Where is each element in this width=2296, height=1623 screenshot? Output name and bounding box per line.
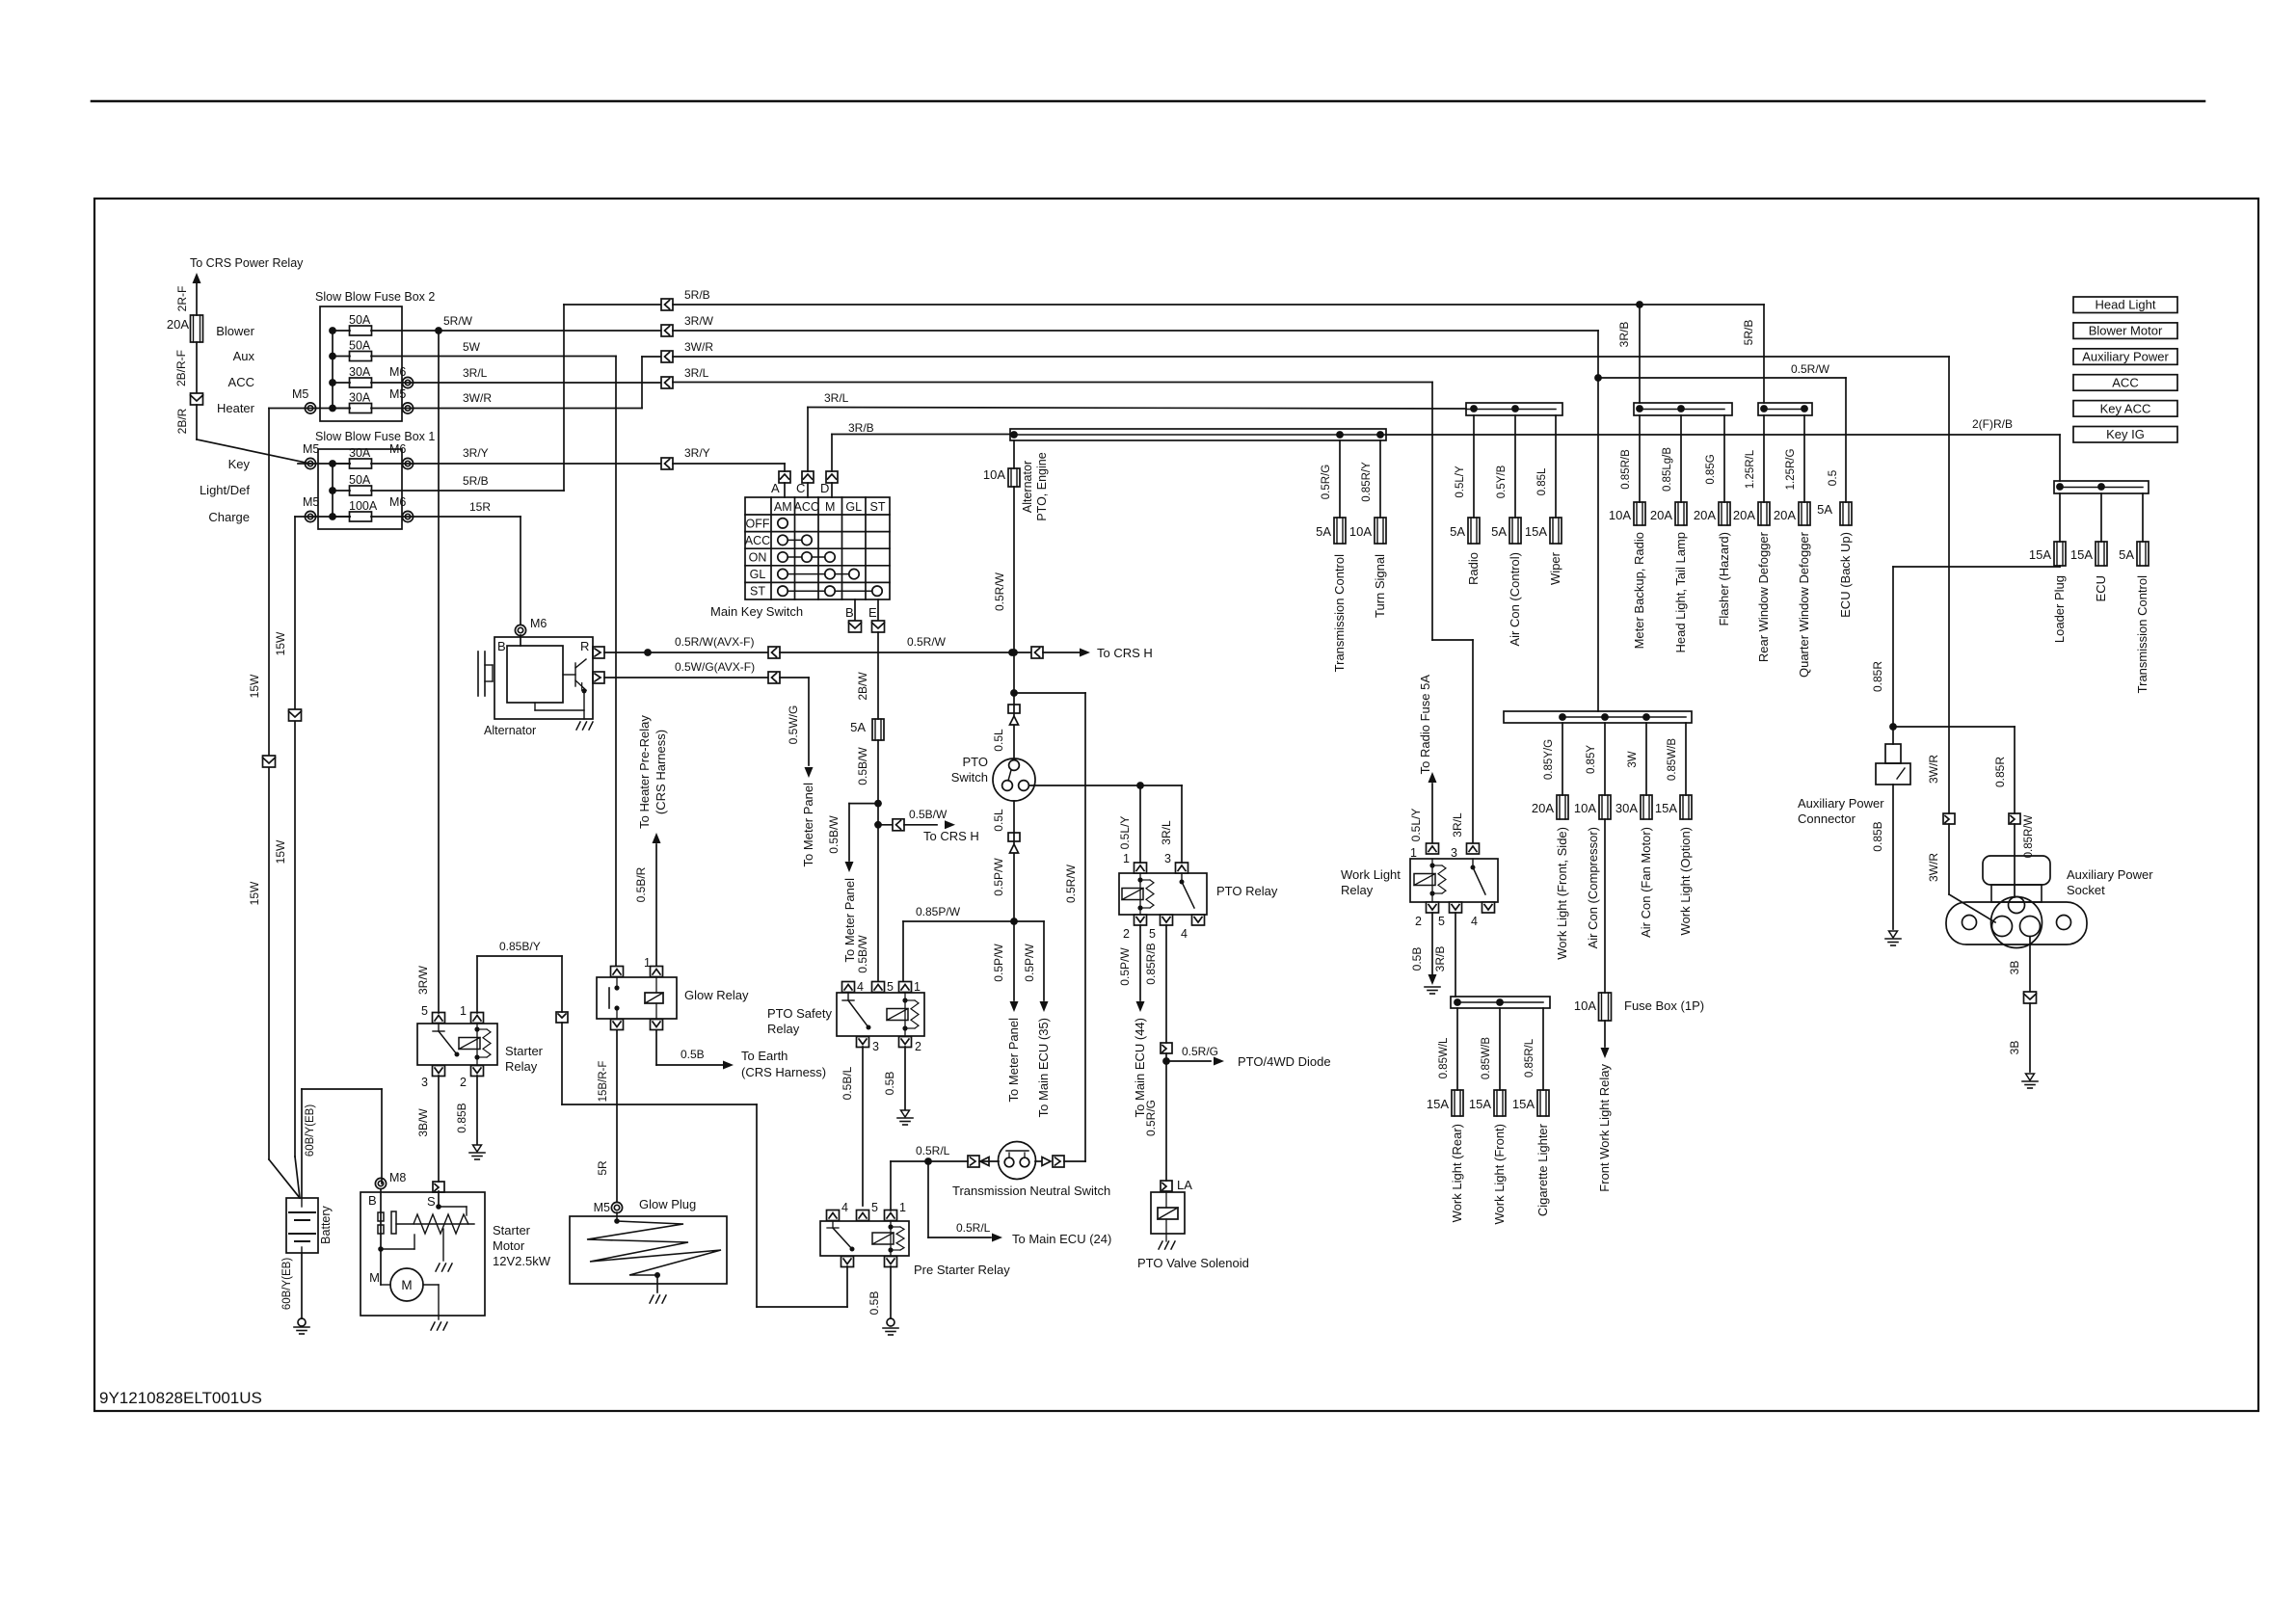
svg-text:A: A [771, 481, 780, 495]
svg-text:Connector: Connector [1798, 811, 1856, 826]
svg-text:0.85P/W: 0.85P/W [916, 905, 961, 918]
svg-text:Auxiliary Power: Auxiliary Power [2067, 867, 2153, 882]
svg-text:ST: ST [750, 585, 765, 599]
svg-text:To Meter Panel: To Meter Panel [842, 878, 857, 963]
svg-text:20A: 20A [1733, 508, 1755, 522]
svg-text:5R/B: 5R/B [684, 288, 710, 302]
svg-text:B: B [845, 605, 854, 620]
svg-text:3R/L: 3R/L [1160, 820, 1173, 845]
svg-text:0.85R/Y: 0.85R/Y [1361, 462, 1373, 502]
svg-text:Cigarette Lighter: Cigarette Lighter [1535, 1123, 1550, 1216]
svg-text:0.85B/Y: 0.85B/Y [499, 940, 541, 953]
svg-text:5A: 5A [2119, 547, 2134, 562]
svg-text:B: B [497, 639, 506, 653]
svg-text:3R/B: 3R/B [1617, 322, 1631, 348]
svg-text:30A: 30A [1615, 801, 1638, 815]
svg-text:3: 3 [872, 1040, 879, 1053]
svg-text:Air Con (Fan Motor): Air Con (Fan Motor) [1639, 827, 1653, 938]
svg-text:3R/L: 3R/L [1451, 812, 1464, 838]
svg-text:Heater: Heater [217, 401, 255, 415]
svg-text:0.85W/L: 0.85W/L [1438, 1037, 1450, 1078]
svg-text:M: M [369, 1270, 380, 1285]
svg-text:5A: 5A [1450, 524, 1465, 539]
svg-text:50A: 50A [349, 313, 371, 327]
svg-text:0.5P/W: 0.5P/W [992, 858, 1005, 896]
svg-text:10A: 10A [1574, 998, 1596, 1013]
svg-text:0.5B: 0.5B [681, 1048, 705, 1061]
svg-text:0.5L/Y: 0.5L/Y [1409, 809, 1423, 842]
svg-text:4: 4 [1471, 915, 1478, 928]
svg-text:5: 5 [421, 1004, 428, 1018]
svg-text:Transmission Control: Transmission Control [2135, 575, 2149, 693]
svg-text:Work Light (Front): Work Light (Front) [1492, 1124, 1507, 1225]
svg-text:4: 4 [1181, 927, 1188, 941]
svg-text:Key: Key [228, 457, 251, 471]
svg-text:Relay: Relay [1341, 883, 1374, 897]
svg-text:S: S [427, 1194, 436, 1209]
svg-text:5A: 5A [1491, 524, 1507, 539]
svg-text:0.5L: 0.5L [992, 809, 1005, 832]
svg-text:M6: M6 [389, 495, 406, 509]
svg-text:ECU (Back Up): ECU (Back Up) [1838, 532, 1853, 618]
svg-text:Fuse Box (1P): Fuse Box (1P) [1624, 998, 1704, 1013]
svg-text:15A: 15A [1655, 801, 1677, 815]
svg-text:M5: M5 [303, 442, 319, 456]
svg-text:Key ACC: Key ACC [2100, 401, 2151, 415]
svg-text:5R: 5R [596, 1160, 609, 1176]
svg-text:5R/B: 5R/B [1742, 320, 1755, 346]
svg-text:3R/W: 3R/W [416, 965, 430, 995]
svg-text:0.85B: 0.85B [455, 1103, 468, 1132]
svg-text:2: 2 [915, 1040, 921, 1053]
svg-text:20A: 20A [1650, 508, 1672, 522]
svg-text:0.85G: 0.85G [1705, 454, 1717, 484]
svg-text:0.5W/G(AVX-F): 0.5W/G(AVX-F) [675, 660, 755, 674]
svg-text:Work Light (Option): Work Light (Option) [1678, 827, 1693, 935]
svg-text:5R/W: 5R/W [443, 314, 473, 328]
svg-text:0.5L/Y: 0.5L/Y [1455, 466, 1466, 498]
svg-text:0.5B/W: 0.5B/W [856, 747, 869, 785]
svg-text:0.85R/W: 0.85R/W [2023, 814, 2035, 858]
svg-text:0.5L: 0.5L [992, 729, 1005, 752]
svg-text:5: 5 [887, 980, 894, 994]
svg-text:Glow Plug: Glow Plug [639, 1197, 696, 1211]
svg-text:ECU: ECU [2094, 575, 2108, 601]
svg-text:1: 1 [460, 1004, 467, 1018]
svg-text:30A: 30A [349, 446, 371, 460]
svg-text:To Meter Panel: To Meter Panel [1006, 1018, 1021, 1103]
svg-text:10A: 10A [1574, 801, 1596, 815]
svg-text:0.5R/L: 0.5R/L [956, 1221, 991, 1235]
svg-text:3W: 3W [1627, 751, 1639, 767]
svg-text:1: 1 [899, 1201, 906, 1214]
svg-text:Work Light (Front, Side): Work Light (Front, Side) [1555, 827, 1569, 960]
svg-text:10A: 10A [1609, 508, 1631, 522]
svg-text:Quarter Window Defogger: Quarter Window Defogger [1797, 531, 1811, 678]
svg-text:To Radio Fuse 5A: To Radio Fuse 5A [1418, 675, 1432, 775]
svg-text:3: 3 [1451, 846, 1457, 860]
svg-text:PTO, Engine: PTO, Engine [1035, 452, 1049, 520]
svg-text:5: 5 [1438, 915, 1445, 928]
svg-text:M6: M6 [530, 617, 547, 630]
svg-text:0.85R/B: 0.85R/B [1620, 449, 1632, 490]
svg-text:Turn Signal: Turn Signal [1373, 554, 1387, 618]
svg-text:Main Key Switch: Main Key Switch [710, 604, 803, 619]
svg-text:0.5R/G: 0.5R/G [1321, 465, 1332, 499]
svg-text:ON: ON [749, 551, 767, 565]
svg-text:20A: 20A [167, 317, 189, 332]
svg-text:1.25R/L: 1.25R/L [1745, 449, 1756, 489]
svg-text:M: M [825, 500, 835, 514]
svg-text:15R: 15R [469, 500, 491, 514]
svg-text:20A: 20A [1774, 508, 1796, 522]
svg-text:0.5P/W: 0.5P/W [1118, 947, 1132, 986]
svg-text:0.85Lg/B: 0.85Lg/B [1662, 447, 1673, 492]
svg-text:R: R [580, 639, 589, 653]
svg-text:3W/R: 3W/R [463, 391, 492, 405]
svg-text:0.85R/L: 0.85R/L [1524, 1038, 1535, 1078]
svg-text:15B/R-F: 15B/R-F [598, 1061, 609, 1103]
svg-text:Front Work Light Relay: Front Work Light Relay [1597, 1064, 1612, 1192]
svg-text:15A: 15A [2070, 547, 2093, 562]
svg-text:0.5B/W: 0.5B/W [827, 815, 841, 854]
svg-text:To Main ECU (35): To Main ECU (35) [1036, 1018, 1051, 1117]
svg-text:ACC: ACC [228, 375, 254, 389]
svg-text:3R/L: 3R/L [463, 366, 488, 380]
svg-text:Wiper: Wiper [1548, 551, 1562, 585]
svg-text:5R/B: 5R/B [463, 474, 489, 488]
svg-text:Relay: Relay [505, 1059, 538, 1074]
svg-text:0.5R/W: 0.5R/W [1791, 362, 1830, 376]
svg-text:1: 1 [914, 980, 921, 994]
svg-text:4: 4 [841, 1201, 848, 1214]
svg-text:Meter Backup, Radio: Meter Backup, Radio [1632, 532, 1646, 649]
svg-text:M6: M6 [389, 365, 406, 379]
svg-text:0.5R/W: 0.5R/W [1064, 864, 1078, 903]
svg-text:Key IG: Key IG [2106, 427, 2145, 441]
svg-text:M8: M8 [389, 1171, 406, 1184]
svg-text:B: B [368, 1193, 377, 1208]
svg-text:3: 3 [421, 1076, 428, 1089]
svg-text:0.5R/L: 0.5R/L [916, 1144, 950, 1157]
svg-text:0.85L: 0.85L [1536, 467, 1548, 495]
svg-text:15A: 15A [1512, 1097, 1535, 1111]
svg-text:ACC: ACC [2112, 375, 2138, 389]
svg-text:0.85R/B: 0.85R/B [1144, 943, 1158, 984]
svg-text:M6: M6 [389, 442, 406, 456]
svg-text:15A: 15A [1427, 1097, 1449, 1111]
svg-text:0.85B: 0.85B [1871, 821, 1884, 851]
svg-text:0.5P/W: 0.5P/W [1023, 944, 1036, 982]
svg-text:Flasher (Hazard): Flasher (Hazard) [1717, 532, 1731, 626]
svg-text:E: E [868, 605, 877, 620]
svg-text:3B/W: 3B/W [416, 1108, 430, 1137]
svg-text:C: C [796, 481, 805, 495]
svg-text:Blower: Blower [216, 324, 254, 338]
svg-text:0.5P/W: 0.5P/W [992, 944, 1005, 982]
svg-text:0.5L/Y: 0.5L/Y [1118, 816, 1132, 850]
svg-text:3R/Y: 3R/Y [684, 446, 710, 460]
svg-text:ACC: ACC [794, 500, 819, 514]
svg-text:15W: 15W [274, 631, 287, 655]
svg-text:15W: 15W [274, 839, 287, 864]
svg-text:0.85Y/G: 0.85Y/G [1543, 739, 1555, 780]
svg-text:Auxiliary Power: Auxiliary Power [1798, 796, 1884, 811]
svg-text:AM: AM [774, 500, 792, 514]
svg-text:3W/R: 3W/R [1927, 853, 1940, 882]
svg-text:Head Light, Tail Lamp: Head Light, Tail Lamp [1673, 532, 1688, 653]
svg-text:15A: 15A [1469, 1097, 1491, 1111]
svg-text:Starter: Starter [505, 1044, 544, 1058]
svg-text:0.5B/W: 0.5B/W [856, 935, 869, 973]
svg-text:0.5B: 0.5B [883, 1072, 896, 1096]
svg-text:Slow Blow Fuse Box 2: Slow Blow Fuse Box 2 [315, 290, 435, 304]
svg-text:0.85R: 0.85R [1871, 661, 1884, 692]
svg-text:60B/Y(EB): 60B/Y(EB) [281, 1258, 293, 1310]
svg-text:PTO Relay: PTO Relay [1216, 884, 1278, 898]
svg-text:5: 5 [1149, 927, 1156, 941]
svg-text:2(F)R/B: 2(F)R/B [1972, 417, 2013, 431]
svg-text:20A: 20A [1532, 801, 1554, 815]
svg-text:10A: 10A [983, 467, 1005, 482]
svg-text:15A: 15A [2029, 547, 2051, 562]
svg-text:Motor: Motor [493, 1238, 525, 1253]
svg-text:Aux: Aux [233, 349, 255, 363]
svg-text:10A: 10A [1349, 524, 1372, 539]
svg-text:2R-F: 2R-F [175, 286, 189, 312]
svg-text:2B/R-F: 2B/R-F [174, 350, 188, 386]
svg-text:0.85R: 0.85R [1993, 757, 2007, 787]
svg-text:3R/L: 3R/L [824, 391, 849, 405]
svg-text:0.5B/W: 0.5B/W [909, 808, 948, 821]
svg-text:15W: 15W [248, 674, 261, 698]
svg-text:3R/L: 3R/L [684, 366, 709, 380]
svg-text:0.5B/L: 0.5B/L [841, 1066, 854, 1100]
svg-text:ACC: ACC [745, 534, 770, 547]
svg-text:PTO Safety: PTO Safety [767, 1006, 832, 1021]
svg-text:Air Con (Compressor): Air Con (Compressor) [1586, 827, 1600, 948]
svg-text:Relay: Relay [767, 1022, 800, 1036]
svg-text:ST: ST [870, 500, 886, 514]
svg-text:To CRS Power Relay: To CRS Power Relay [190, 256, 304, 270]
svg-text:0.5R/W: 0.5R/W [907, 635, 947, 649]
svg-text:50A: 50A [349, 339, 371, 353]
svg-text:M5: M5 [594, 1201, 610, 1214]
svg-text:3W/R: 3W/R [1927, 755, 1940, 784]
svg-text:(CRS Harness): (CRS Harness) [741, 1065, 826, 1079]
svg-text:Transmission Neutral Switch: Transmission Neutral Switch [952, 1184, 1110, 1198]
svg-text:100A: 100A [349, 499, 378, 513]
svg-text:0.5B: 0.5B [1410, 947, 1424, 971]
svg-text:20A: 20A [1694, 508, 1716, 522]
svg-text:2: 2 [1123, 927, 1130, 941]
svg-text:Alternator: Alternator [1021, 461, 1034, 513]
svg-text:GL: GL [750, 568, 766, 581]
svg-text:0.5R/G: 0.5R/G [1144, 1100, 1158, 1136]
svg-text:3R/B: 3R/B [1433, 946, 1447, 972]
svg-text:PTO Valve Solenoid: PTO Valve Solenoid [1137, 1256, 1249, 1270]
svg-text:Air Con (Control): Air Con (Control) [1508, 552, 1522, 647]
svg-text:Switch: Switch [951, 770, 988, 785]
svg-text:9Y1210828ELT001US: 9Y1210828ELT001US [99, 1389, 262, 1407]
svg-text:Head Light: Head Light [2096, 298, 2156, 312]
svg-text:Glow Relay: Glow Relay [684, 988, 749, 1002]
svg-text:Battery: Battery [319, 1205, 333, 1243]
svg-text:0.5W/G: 0.5W/G [787, 705, 800, 745]
svg-text:LA: LA [1177, 1178, 1192, 1192]
svg-text:To Meter Panel: To Meter Panel [801, 783, 815, 867]
svg-text:0.85W/B: 0.85W/B [1481, 1037, 1492, 1079]
svg-text:PTO/4WD Diode: PTO/4WD Diode [1238, 1054, 1331, 1069]
svg-text:2: 2 [1415, 915, 1422, 928]
svg-text:0.5: 0.5 [1826, 469, 1839, 486]
svg-text:(CRS Harness): (CRS Harness) [654, 730, 668, 814]
svg-text:PTO: PTO [963, 755, 989, 769]
svg-text:3W/R: 3W/R [684, 340, 713, 354]
svg-text:5: 5 [871, 1201, 878, 1214]
svg-text:3B: 3B [2008, 961, 2021, 975]
svg-text:1: 1 [1123, 852, 1130, 865]
svg-text:Work Light (Rear): Work Light (Rear) [1450, 1124, 1464, 1222]
svg-text:Radio: Radio [1466, 552, 1481, 585]
svg-text:To Earth: To Earth [741, 1049, 788, 1063]
svg-text:Starter: Starter [493, 1223, 531, 1237]
svg-text:0.5B: 0.5B [868, 1291, 881, 1316]
svg-text:2B/W: 2B/W [856, 672, 869, 701]
svg-text:2B/R: 2B/R [175, 408, 189, 434]
svg-text:0.5B/R: 0.5B/R [634, 866, 648, 902]
svg-text:5A: 5A [850, 720, 866, 734]
svg-text:Slow Blow Fuse Box 1: Slow Blow Fuse Box 1 [315, 430, 435, 443]
svg-text:Light/Def: Light/Def [200, 483, 250, 497]
svg-text:3B: 3B [2008, 1041, 2021, 1055]
svg-text:0.5R/W: 0.5R/W [993, 572, 1006, 611]
svg-text:Socket: Socket [2067, 883, 2105, 897]
svg-text:30A: 30A [349, 365, 371, 379]
svg-text:5W: 5W [463, 340, 481, 354]
svg-text:1.25R/G: 1.25R/G [1785, 449, 1797, 491]
svg-text:3R/Y: 3R/Y [463, 446, 489, 460]
svg-text:1: 1 [644, 956, 651, 970]
svg-text:12V2.5kW: 12V2.5kW [493, 1254, 551, 1268]
svg-text:3: 3 [1164, 852, 1171, 865]
svg-text:GL: GL [845, 500, 862, 514]
svg-text:Alternator: Alternator [484, 724, 536, 737]
svg-text:M5: M5 [292, 387, 308, 401]
svg-text:D: D [820, 481, 829, 495]
svg-text:To CRS H: To CRS H [923, 829, 979, 843]
svg-text:60B/Y(EB): 60B/Y(EB) [305, 1104, 316, 1157]
svg-text:1: 1 [1410, 846, 1417, 860]
svg-text:0.5R/G: 0.5R/G [1182, 1045, 1218, 1058]
svg-text:Pre Starter Relay: Pre Starter Relay [914, 1263, 1010, 1277]
svg-text:3R/W: 3R/W [684, 314, 714, 328]
svg-text:2: 2 [460, 1076, 467, 1089]
svg-text:Loader Plug: Loader Plug [2052, 575, 2067, 643]
svg-text:To Main ECU (24): To Main ECU (24) [1012, 1232, 1111, 1246]
svg-text:3R/B: 3R/B [848, 421, 874, 435]
svg-text:30A: 30A [349, 391, 371, 405]
svg-text:To Heater Pre-Relay: To Heater Pre-Relay [637, 715, 652, 829]
svg-text:0.85W/B: 0.85W/B [1667, 738, 1678, 781]
svg-text:50A: 50A [349, 473, 371, 487]
svg-text:M: M [401, 1278, 412, 1292]
svg-text:Auxiliary Power: Auxiliary Power [2082, 350, 2169, 364]
svg-text:Transmission Control: Transmission Control [1332, 554, 1347, 672]
svg-text:0.85Y: 0.85Y [1586, 745, 1597, 774]
svg-text:Work Light: Work Light [1341, 867, 1401, 882]
svg-text:M5: M5 [389, 387, 406, 401]
svg-text:Rear Window Defogger: Rear Window Defogger [1756, 531, 1771, 662]
svg-text:0.5R/W(AVX-F): 0.5R/W(AVX-F) [675, 635, 754, 649]
svg-text:0.5Y/B: 0.5Y/B [1496, 465, 1508, 498]
svg-text:15A: 15A [1525, 524, 1547, 539]
svg-text:Charge: Charge [208, 510, 250, 524]
svg-text:5A: 5A [1316, 524, 1331, 539]
svg-text:5A: 5A [1817, 502, 1832, 517]
svg-text:4: 4 [857, 980, 864, 994]
svg-text:OFF: OFF [746, 517, 770, 530]
svg-text:Blower Motor: Blower Motor [2089, 324, 2163, 338]
svg-text:M5: M5 [303, 495, 319, 509]
svg-text:15W: 15W [248, 881, 261, 905]
svg-text:To CRS H: To CRS H [1097, 646, 1153, 660]
